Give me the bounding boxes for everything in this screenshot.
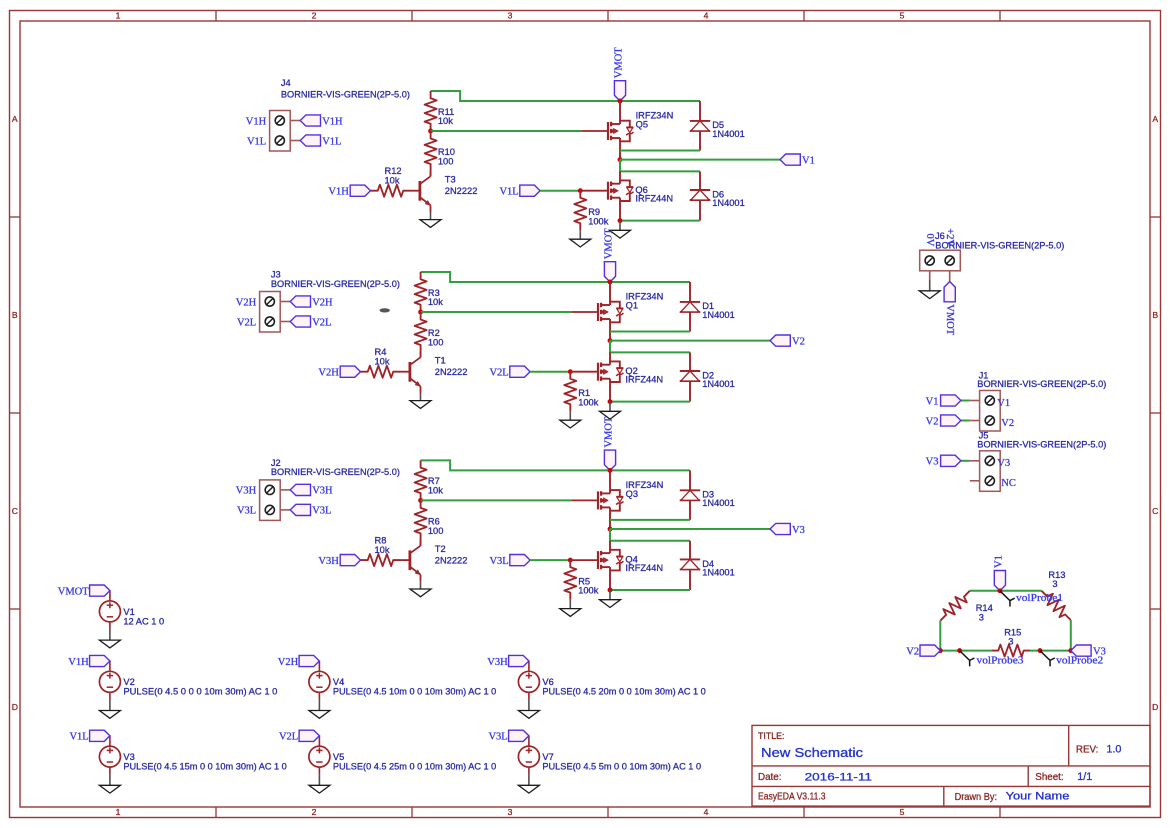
wire <box>1070 620 1072 651</box>
svg-text:2N2222: 2N2222 <box>435 367 468 377</box>
net flag V3L <box>509 730 529 741</box>
svg-text:T3: T3 <box>445 174 456 184</box>
svg-text:IRFZ44N: IRFZ44N <box>635 194 673 204</box>
svg-text:4: 4 <box>704 11 709 21</box>
pin 2 of J6 <box>945 256 954 265</box>
transistor T1 2N2222 <box>408 362 411 382</box>
ellipse artifact <box>380 308 390 312</box>
ground <box>569 411 571 420</box>
svg-text:10k: 10k <box>375 545 390 555</box>
svg-text:BORNIER-VIS-GREEN(2P-5.0): BORNIER-VIS-GREEN(2P-5.0) <box>977 379 1106 389</box>
net flag V1 <box>994 571 1005 591</box>
svg-text:V5: V5 <box>333 752 344 762</box>
junction source node <box>608 399 613 404</box>
net flag V3H <box>290 484 310 495</box>
wire collector lead <box>430 171 432 176</box>
pin 2 of J3 <box>265 317 274 326</box>
net flag V1H <box>90 655 110 666</box>
svg-text:1N4001: 1N4001 <box>702 568 735 578</box>
net flag V3 <box>941 455 961 466</box>
pin 2 of J2 <box>265 505 274 514</box>
wire gate lead <box>572 311 598 313</box>
voltage source V3 <box>99 746 120 767</box>
mosfet Q2 IRFZ44N <box>609 352 611 364</box>
junction gate pulldown <box>578 188 583 193</box>
svg-text:EasyEDA V3.11.3: EasyEDA V3.11.3 <box>758 791 826 802</box>
svg-text:3: 3 <box>508 11 513 21</box>
wire <box>431 91 700 101</box>
resistor R15 <box>992 645 1030 657</box>
svg-text:A: A <box>1152 114 1158 124</box>
svg-text:V3H: V3H <box>236 486 257 497</box>
mosfet Q1 IRFZ34N <box>609 282 611 305</box>
svg-text:V2L: V2L <box>489 368 508 379</box>
wire <box>421 272 690 282</box>
svg-text:volProbe1: volProbe1 <box>1016 593 1063 604</box>
svg-text:C: C <box>12 506 18 516</box>
svg-text:2: 2 <box>312 807 317 817</box>
svg-text:1N4001: 1N4001 <box>712 198 745 208</box>
junction gate divider <box>418 310 423 315</box>
svg-text:1: 1 <box>116 11 121 21</box>
junction top node <box>997 588 1002 593</box>
probe volProbe2 <box>1040 651 1055 667</box>
svg-text:R8: R8 <box>375 536 387 546</box>
svg-text:V3L: V3L <box>237 506 256 517</box>
wire <box>610 401 690 403</box>
frame row ticks left/right <box>10 216 20 218</box>
svg-text:1/1: 1/1 <box>1077 771 1092 783</box>
svg-text:J4: J4 <box>281 78 291 88</box>
svg-text:D: D <box>12 702 18 712</box>
ground <box>318 692 320 700</box>
svg-text:0V: 0V <box>924 234 935 247</box>
connector J4 <box>270 111 291 152</box>
svg-text:REV:: REV: <box>1076 745 1099 756</box>
probe volProbe1 <box>1000 591 1015 607</box>
svg-text:V1: V1 <box>997 398 1010 409</box>
wire <box>421 311 572 313</box>
ground <box>528 767 530 775</box>
ground <box>569 600 571 609</box>
wire gate lead <box>580 190 608 192</box>
svg-text:1N4001: 1N4001 <box>712 129 745 139</box>
frame column ticks top/bottom <box>215 11 217 21</box>
wire base lead <box>401 371 410 373</box>
svg-text:V1H: V1H <box>246 116 267 127</box>
svg-text:R12: R12 <box>385 166 402 176</box>
svg-text:BORNIER-VIS-GREEN(2P-5.0): BORNIER-VIS-GREEN(2P-5.0) <box>977 440 1106 450</box>
net flag V2H <box>299 655 319 666</box>
svg-text:V1L: V1L <box>322 136 341 147</box>
svg-text:2N2222: 2N2222 <box>435 555 468 565</box>
connector J3 <box>260 292 281 333</box>
wire <box>530 559 570 561</box>
voltage source V4 <box>309 671 330 692</box>
net flag V3H <box>340 555 360 566</box>
pin 2 of J1 <box>985 416 994 425</box>
svg-text:Your Name: Your Name <box>1006 791 1070 803</box>
ground <box>609 402 611 412</box>
net flag V2H <box>290 296 310 307</box>
svg-text:VMOT: VMOT <box>58 586 90 597</box>
svg-text:3: 3 <box>1052 579 1057 589</box>
svg-text:100k: 100k <box>578 397 599 407</box>
resistor R9 <box>574 191 586 231</box>
svg-text:10k: 10k <box>385 176 400 186</box>
svg-text:PULSE(0 4.5 20m 0 0 10m 30m) A: PULSE(0 4.5 20m 0 0 10m 30m) AC 1 0 <box>542 687 705 697</box>
resistor R7 <box>415 460 427 500</box>
net flag VMOT <box>614 81 625 101</box>
svg-text:V2H: V2H <box>278 657 299 668</box>
wire base lead <box>401 559 410 561</box>
junction <box>1038 648 1043 653</box>
svg-text:T2: T2 <box>435 544 446 554</box>
svg-text:New Schematic: New Schematic <box>761 745 864 760</box>
junction source node <box>618 218 623 223</box>
mosfet Q4 IRFZ44N <box>609 541 611 553</box>
ground <box>109 767 111 775</box>
svg-text:3: 3 <box>508 807 513 817</box>
svg-text:V6: V6 <box>542 677 553 687</box>
junction <box>1068 648 1073 653</box>
net flag V1L <box>520 185 540 196</box>
junction VMOT rail <box>608 280 613 285</box>
pin 1 of J4 <box>275 116 284 125</box>
wire <box>610 528 770 530</box>
svg-text:100: 100 <box>438 157 454 167</box>
svg-text:Q3: Q3 <box>626 489 638 499</box>
svg-text:5: 5 <box>900 807 905 817</box>
svg-text:V2H: V2H <box>318 368 339 379</box>
net flag V3 <box>770 523 790 534</box>
wire base lead <box>411 190 420 192</box>
resistor R14 <box>940 591 970 621</box>
svg-text:12 AC 1 0: 12 AC 1 0 <box>123 616 164 626</box>
wire gate lead <box>570 371 598 373</box>
wire <box>610 331 690 333</box>
svg-text:1N4001: 1N4001 <box>702 498 735 508</box>
svg-text:3: 3 <box>1008 637 1013 647</box>
svg-text:Q1: Q1 <box>626 301 638 311</box>
svg-text:V2L: V2L <box>237 317 256 328</box>
svg-text:10k: 10k <box>428 297 443 307</box>
junction node V1 <box>618 157 623 162</box>
svg-text:10k: 10k <box>375 357 390 367</box>
transistor T3 2N2222 <box>418 181 421 201</box>
svg-text:NC: NC <box>1001 478 1016 489</box>
svg-text:1N4001: 1N4001 <box>702 379 735 389</box>
net flag V2L <box>299 730 319 741</box>
wire <box>970 590 1042 592</box>
net flag V2L <box>510 366 530 377</box>
net flag V1H <box>350 185 370 196</box>
resistor R11 <box>425 91 437 131</box>
net flag V3L <box>290 504 310 515</box>
connector J1 <box>980 391 1001 432</box>
svg-text:V2H: V2H <box>236 297 257 308</box>
ground <box>619 221 621 231</box>
net flag V1 <box>780 154 800 165</box>
junction VMOT rail <box>608 468 613 473</box>
resistor R1 <box>564 372 576 412</box>
junction <box>938 648 943 653</box>
svg-text:V2L: V2L <box>312 317 331 328</box>
wire <box>620 160 700 172</box>
junction VMOT rail <box>618 99 623 104</box>
svg-text:+2V: +2V <box>944 228 955 247</box>
svg-text:3: 3 <box>979 613 984 623</box>
svg-text:V3L: V3L <box>489 556 508 567</box>
svg-text:V3H: V3H <box>318 556 339 567</box>
svg-text:V1: V1 <box>926 396 939 407</box>
ground <box>528 692 530 700</box>
svg-text:V1H: V1H <box>328 187 349 198</box>
svg-text:IRFZ44N: IRFZ44N <box>625 563 663 573</box>
svg-text:1: 1 <box>116 807 121 817</box>
wire <box>949 271 951 282</box>
svg-text:10k: 10k <box>428 486 443 496</box>
svg-text:PULSE(0 4.5 5m 0 0 10m 30m) AC: PULSE(0 4.5 5m 0 0 10m 30m) AC 1 0 <box>542 762 701 772</box>
wire <box>620 220 700 222</box>
pin 1 of J3 <box>265 297 274 306</box>
svg-text:VMOT: VMOT <box>604 416 615 448</box>
pin 1 of J6 <box>925 256 934 265</box>
svg-text:V1L: V1L <box>247 136 266 147</box>
voltage source V2 <box>99 671 120 692</box>
svg-text:V3L: V3L <box>312 506 331 517</box>
transistor T2 2N2222 <box>408 550 411 570</box>
svg-text:B: B <box>1152 310 1158 320</box>
svg-text:100k: 100k <box>588 216 609 226</box>
svg-text:Date:: Date: <box>758 772 781 783</box>
wire <box>540 190 580 192</box>
svg-text:2: 2 <box>312 11 317 21</box>
svg-text:PULSE(0 4.5 25m 0 0 10m 30m) A: PULSE(0 4.5 25m 0 0 10m 30m) AC 1 0 <box>333 762 496 772</box>
svg-text:IRFZ44N: IRFZ44N <box>625 375 663 385</box>
mosfet Q3 IRFZ34N <box>609 470 611 493</box>
connector J5 <box>980 451 1001 492</box>
resistor R4 <box>361 366 401 378</box>
wire <box>1030 650 1071 652</box>
diode D6 1N4001 <box>699 171 701 190</box>
wire <box>961 420 970 422</box>
svg-text:A: A <box>12 114 18 124</box>
junction node V3 <box>608 527 613 532</box>
net flag VMOT <box>604 262 615 282</box>
svg-text:V3: V3 <box>997 458 1010 469</box>
svg-text:V1: V1 <box>802 155 815 166</box>
pin 1 of J5 <box>985 456 994 465</box>
wire <box>620 150 700 152</box>
svg-text:V1L: V1L <box>69 732 88 743</box>
svg-text:BORNIER-VIS-GREEN(2P-5.0): BORNIER-VIS-GREEN(2P-5.0) <box>271 467 400 477</box>
net flag VMOT <box>944 282 955 302</box>
wire <box>431 130 582 132</box>
svg-text:volProbe3: volProbe3 <box>977 656 1024 667</box>
svg-text:volProbe2: volProbe2 <box>1056 656 1103 667</box>
wire <box>610 529 690 541</box>
svg-text:V7: V7 <box>542 752 553 762</box>
svg-text:VMOT: VMOT <box>604 228 615 260</box>
wire <box>610 340 770 342</box>
wire <box>940 650 992 652</box>
net flag V1L <box>300 135 320 146</box>
mosfet Q6 IRFZ44N <box>619 171 621 183</box>
svg-text:V2L: V2L <box>279 732 298 743</box>
svg-text:V4: V4 <box>333 677 344 687</box>
svg-text:V2: V2 <box>926 416 939 427</box>
svg-text:2N2222: 2N2222 <box>445 186 478 196</box>
svg-text:100: 100 <box>428 338 444 348</box>
svg-text:10k: 10k <box>438 116 453 126</box>
connector J6 <box>920 250 961 271</box>
svg-text:V3: V3 <box>123 752 134 762</box>
net flag V2 <box>770 335 790 346</box>
net flag V3L <box>510 555 530 566</box>
pin 2 of J5 <box>985 476 994 485</box>
svg-text:T1: T1 <box>435 355 446 365</box>
ground <box>609 590 611 600</box>
svg-text:Sheet:: Sheet: <box>1035 772 1063 783</box>
svg-text:V1H: V1H <box>322 116 343 127</box>
svg-text:C: C <box>1152 506 1158 516</box>
svg-text:B: B <box>12 310 18 320</box>
svg-text:BORNIER-VIS-GREEN(2P-5.0): BORNIER-VIS-GREEN(2P-5.0) <box>271 279 400 289</box>
net flag VMOT <box>604 450 615 470</box>
wire gate lead <box>572 499 598 501</box>
ground <box>318 767 320 775</box>
svg-text:V1: V1 <box>993 555 1004 568</box>
wire <box>939 621 941 651</box>
svg-text:V1L: V1L <box>499 187 518 198</box>
junction <box>957 648 962 653</box>
svg-text:V3: V3 <box>926 457 939 468</box>
svg-text:V2: V2 <box>792 336 805 347</box>
net flag V2 <box>920 645 940 656</box>
wire <box>610 589 690 591</box>
wire <box>421 460 690 470</box>
svg-text:1.0: 1.0 <box>1106 744 1121 756</box>
wire collector lead <box>420 352 422 357</box>
wire collector lead <box>420 541 422 546</box>
svg-text:V2: V2 <box>906 646 919 657</box>
svg-text:VMOT: VMOT <box>944 304 955 336</box>
svg-text:V3H: V3H <box>487 657 508 668</box>
resistor R12 <box>371 185 411 197</box>
svg-text:R4: R4 <box>375 347 387 357</box>
ground <box>109 622 111 630</box>
probe volProbe3 <box>960 651 975 667</box>
net flag VMOT <box>90 585 110 596</box>
voltage source V5 <box>309 746 330 767</box>
resistor R2 <box>415 312 427 352</box>
connector J2 <box>260 480 281 521</box>
wire <box>610 341 690 353</box>
net flag V1L <box>90 730 110 741</box>
svg-text:D: D <box>1152 702 1158 712</box>
ground <box>109 692 111 700</box>
pin 1 of J2 <box>265 485 274 494</box>
net flag V2H <box>340 366 360 377</box>
resistor R3 <box>415 272 427 312</box>
wire <box>421 499 572 501</box>
svg-text:V3L: V3L <box>488 732 507 743</box>
wire <box>620 159 780 161</box>
svg-text:V1: V1 <box>123 607 134 617</box>
net flag V2 <box>941 415 961 426</box>
voltage source V7 <box>518 746 539 767</box>
resistor R10 <box>425 131 437 171</box>
junction gate pulldown <box>568 369 573 374</box>
diode D2 1N4001 <box>689 352 691 371</box>
junction gate pulldown <box>568 558 573 563</box>
diode D5 1N4001 <box>699 101 701 121</box>
net flag V3H <box>509 655 529 666</box>
svg-text:Q5: Q5 <box>636 120 648 130</box>
junction gate divider <box>428 129 433 134</box>
svg-text:V3: V3 <box>792 525 805 536</box>
junction node V2 <box>608 338 613 343</box>
diode D3 1N4001 <box>689 470 691 490</box>
svg-text:V2: V2 <box>123 677 134 687</box>
svg-text:100: 100 <box>428 526 444 536</box>
svg-text:TITLE:: TITLE: <box>758 731 784 741</box>
svg-text:VMOT: VMOT <box>614 47 625 79</box>
net flag V1H <box>300 115 320 126</box>
junction source node <box>608 588 613 593</box>
junction gate divider <box>418 498 423 503</box>
resistor R8 <box>361 554 401 566</box>
wire gate lead <box>582 130 608 132</box>
svg-text:2016-11-11: 2016-11-11 <box>805 771 872 783</box>
wire <box>961 400 970 402</box>
wire gate lead <box>570 559 598 561</box>
diode D4 1N4001 <box>689 541 691 560</box>
net flag V3 <box>1071 645 1091 656</box>
resistor R13 <box>1042 591 1071 620</box>
mosfet Q5 IRFZ34N <box>619 101 621 124</box>
svg-text:V1H: V1H <box>68 657 89 668</box>
net flag V1 <box>941 395 961 406</box>
svg-text:BORNIER-VIS-GREEN(2P-5.0): BORNIER-VIS-GREEN(2P-5.0) <box>281 89 410 99</box>
pin 1 of J1 <box>985 396 994 405</box>
title block <box>752 725 1150 806</box>
svg-text:V3H: V3H <box>312 486 333 497</box>
resistor R5 <box>564 560 576 600</box>
ground <box>929 271 931 279</box>
net flag V2L <box>290 316 310 327</box>
svg-text:1N4001: 1N4001 <box>702 310 735 320</box>
svg-text:PULSE(0 4.5 10m 0 0 10m 30m) A: PULSE(0 4.5 10m 0 0 10m 30m) AC 1 0 <box>333 687 496 697</box>
svg-text:5: 5 <box>900 11 905 21</box>
svg-text:4: 4 <box>704 807 709 817</box>
svg-text:V2: V2 <box>1001 418 1014 429</box>
svg-text:Drawn By:: Drawn By: <box>955 792 997 803</box>
wire <box>961 460 970 462</box>
svg-text:PULSE(0 4.5 15m 0 0 10m 30m) A: PULSE(0 4.5 15m 0 0 10m 30m) AC 1 0 <box>123 762 286 772</box>
ground <box>579 230 581 239</box>
svg-text:100k: 100k <box>578 586 599 596</box>
voltage source V1 <box>99 601 120 622</box>
resistor R6 <box>415 500 427 540</box>
svg-text:V2H: V2H <box>312 297 333 308</box>
svg-text:PULSE(0 4.5 0 0 0 10m 30m) AC: PULSE(0 4.5 0 0 0 10m 30m) AC 1 0 <box>123 687 277 697</box>
pin 2 of J4 <box>275 136 284 145</box>
wire <box>530 371 570 373</box>
voltage source V6 <box>518 671 539 692</box>
wire <box>610 519 690 521</box>
